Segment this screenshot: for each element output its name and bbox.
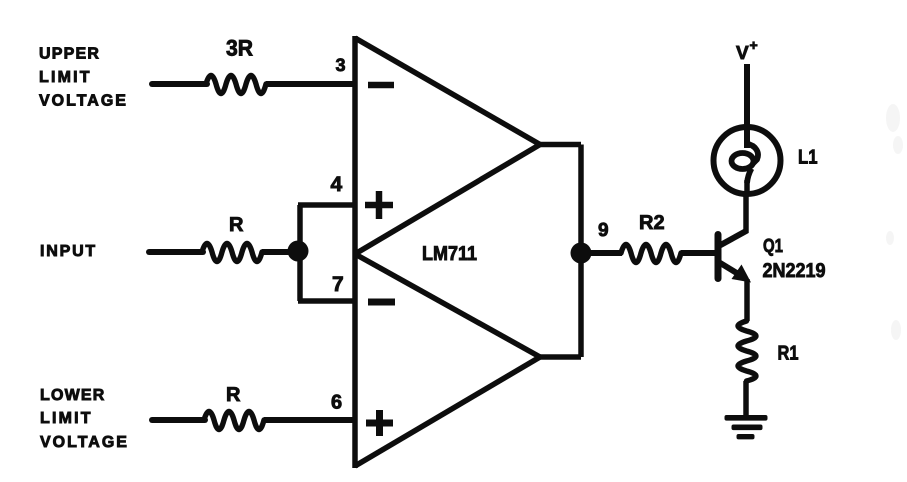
svg-text:R: R	[226, 384, 241, 406]
svg-text:LIMIT: LIMIT	[40, 410, 93, 427]
op-amp U1 LM711 left edge	[352, 36, 358, 468]
label UPPER LIMIT VOLTAGE	[39, 46, 128, 110]
svg-text:9: 9	[598, 220, 609, 241]
wire R1 to ground	[743, 381, 749, 416]
decorative scan smudges (right edge)	[886, 104, 903, 340]
svg-text:INPUT: INPUT	[40, 243, 97, 260]
svg-text:+: +	[750, 37, 758, 53]
svg-text:Q1: Q1	[763, 236, 783, 257]
svg-text:3R: 3R	[226, 36, 253, 61]
svg-text:6: 6	[331, 392, 342, 414]
transistor Q1 emitter arrowhead	[732, 265, 752, 283]
resistor R (lower)	[204, 412, 264, 430]
plus sign pin 4 input	[365, 191, 393, 219]
svg-text:R2: R2	[639, 212, 665, 234]
minus sign pin 7 input	[368, 299, 395, 306]
wire R to input node	[262, 249, 298, 255]
wire collector vertical	[743, 192, 749, 233]
lamp L1 bulb	[714, 127, 781, 194]
svg-text:UPPER: UPPER	[39, 46, 100, 63]
wire to pin 4	[298, 202, 355, 208]
op-amp comparator B bottom edge	[355, 357, 540, 466]
op-amp comparator A top edge	[355, 38, 540, 145]
wire output stub top	[538, 142, 581, 148]
svg-text:VOLTAGE: VOLTAGE	[39, 93, 128, 110]
svg-text:L1: L1	[798, 147, 818, 169]
svg-text:3: 3	[336, 55, 346, 75]
wire to pin 7	[298, 298, 355, 304]
svg-text:R: R	[229, 214, 244, 236]
wire lamp to collector	[744, 180, 750, 196]
transistor Q1 emitter stroke	[717, 261, 744, 278]
lamp L1 filament loop	[732, 144, 758, 184]
wire output stub vertical	[578, 145, 584, 358]
resistor R (input)	[202, 244, 262, 262]
wire output stub bottom	[538, 354, 581, 360]
resistor R2	[621, 245, 681, 263]
wire input lead	[149, 249, 203, 255]
label LOWER LIMIT VOLTAGE	[40, 387, 129, 451]
wire R to pin 6	[264, 417, 355, 423]
wire upper-limit lead	[152, 81, 207, 87]
op-amp comparator B top edge	[355, 254, 540, 357]
svg-text:4: 4	[331, 173, 343, 196]
transistor Q1 base bar	[715, 235, 722, 279]
wire emitter to R1	[744, 279, 750, 321]
wire input branch vertical	[297, 205, 303, 301]
svg-text:R1: R1	[778, 343, 799, 365]
wire V+ to lamp	[744, 64, 750, 148]
wire 3R to pin 3	[266, 81, 355, 87]
svg-text:V: V	[736, 43, 749, 64]
svg-text:LIMIT: LIMIT	[39, 69, 92, 86]
op-amp comparator A bottom edge	[355, 145, 540, 255]
resistor R1	[738, 321, 756, 381]
node input junction	[288, 241, 309, 262]
svg-text:2N2219: 2N2219	[763, 260, 826, 282]
wire node 9 to R2	[581, 250, 622, 256]
wire lower-limit lead	[152, 417, 205, 423]
svg-text:7: 7	[332, 273, 344, 296]
power V+ label	[736, 37, 758, 64]
svg-text:VOLTAGE: VOLTAGE	[40, 434, 129, 451]
node 9 output junction	[571, 243, 592, 264]
svg-text:LM711: LM711	[422, 243, 477, 265]
minus sign pin 3 input	[368, 82, 394, 89]
wire R2 to base	[681, 250, 716, 256]
ground	[725, 415, 768, 439]
plus sign pin 6 input	[366, 410, 393, 436]
transistor Q1 collector stroke	[717, 231, 747, 248]
resistor 3R	[206, 76, 266, 94]
svg-text:LOWER: LOWER	[40, 387, 106, 404]
